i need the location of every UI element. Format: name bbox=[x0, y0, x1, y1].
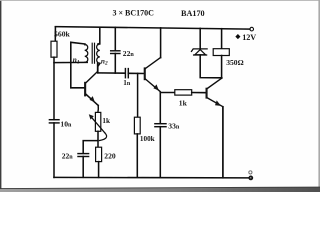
wire: to 1n bbox=[98, 72, 125, 74]
transformer T1 winding n2 bbox=[97, 44, 100, 63]
svg-text:n2: n2 bbox=[101, 56, 108, 66]
wire: 560k down to 10n bbox=[53, 57, 55, 119]
wire: 33n to ground rail bbox=[159, 127, 161, 178]
Q1 emitter bbox=[86, 94, 98, 105]
wire: 22n to rail bbox=[82, 157, 84, 178]
terminal lower bbox=[249, 176, 253, 180]
Q2 emitter bbox=[146, 79, 161, 91]
wire: node to 220 bbox=[97, 141, 99, 148]
scan edge bottom band bbox=[0, 187, 320, 192]
svg-text:BA170: BA170 bbox=[181, 9, 205, 18]
scan bottom line bbox=[0, 187, 320, 189]
wire: 350 to collector node bbox=[221, 56, 223, 78]
resistor 350 ohm bbox=[213, 49, 229, 56]
wire: 1n to Q2 base bbox=[128, 72, 144, 74]
transformer core bbox=[91, 43, 93, 63]
trimmer 1k (Q1 emitter) bbox=[95, 112, 100, 131]
wire: Q3 emitter to ground rail bbox=[222, 107, 224, 178]
terminal upper bbox=[249, 171, 252, 174]
svg-text:12V: 12V bbox=[242, 33, 256, 42]
polarity dot n1 bbox=[84, 43, 86, 45]
svg-text:220: 220 bbox=[104, 151, 116, 160]
wire: 220 to rail bbox=[98, 162, 100, 178]
svg-text:1k: 1k bbox=[179, 99, 188, 108]
svg-text:100k: 100k bbox=[140, 135, 155, 143]
wire: 100k to rail bbox=[136, 134, 138, 177]
wire: 1k to Q3 base bbox=[192, 92, 206, 94]
ground bottom rail bbox=[54, 176, 249, 179]
Q3 collector bbox=[207, 78, 222, 89]
Q3 emitter bbox=[207, 98, 222, 107]
transistor Q2 base bar bbox=[144, 67, 146, 80]
wire: +12V top rail bbox=[55, 27, 250, 30]
svg-text:3 × BC170C: 3 × BC170C bbox=[113, 9, 155, 18]
transistor Q3 base bar bbox=[206, 88, 208, 99]
diode BA170 bbox=[192, 49, 208, 55]
wire: rail to n2 top bbox=[99, 27, 101, 44]
resistor 100k bbox=[134, 117, 140, 134]
transformer T1 winding n1 bbox=[85, 44, 88, 62]
svg-text:33n: 33n bbox=[168, 121, 180, 130]
wire: n2 bottom down bbox=[98, 63, 100, 73]
svg-text:10n: 10n bbox=[60, 119, 72, 128]
wire: bias node horizontal to n1 bottom bbox=[54, 61, 87, 63]
Q1 collector bbox=[86, 72, 98, 83]
wire: 10n to rail corner bbox=[53, 123, 55, 177]
resistor R1 560k bbox=[51, 41, 57, 57]
wire: rail to 22n bbox=[114, 27, 116, 50]
capacitor 22n (emitter) bbox=[78, 153, 89, 155]
wire: n1 top to Q1 base bbox=[71, 42, 85, 88]
capacitor 10n bbox=[49, 119, 59, 121]
scan edge top bbox=[0, 0, 320, 2]
wire: base node down to 100k bbox=[137, 73, 139, 117]
svg-text:22n: 22n bbox=[123, 49, 135, 58]
capacitor 1n bbox=[124, 69, 126, 78]
svg-text:1n: 1n bbox=[123, 79, 131, 87]
svg-text:350Ω: 350Ω bbox=[226, 58, 243, 67]
wire: emitter node down to 33n bbox=[159, 92, 161, 123]
transistor Q1 base bar bbox=[84, 82, 86, 97]
wire: trimmer bottom node bbox=[83, 131, 98, 153]
resistor 220 bbox=[96, 147, 102, 161]
capacitor 22n (tank) bbox=[111, 50, 120, 52]
scan edge left bbox=[0, 0, 1, 192]
resistor 1k (Q3 base) bbox=[175, 90, 192, 95]
wire: rail to diode bbox=[199, 28, 201, 48]
svg-text:560k: 560k bbox=[54, 30, 71, 39]
svg-text:n1: n1 bbox=[73, 55, 80, 65]
terminal: +12V bbox=[250, 27, 254, 31]
scan edge right bbox=[318, 0, 320, 192]
polarity dot n2 bbox=[97, 43, 99, 45]
wire: rail to 560k bbox=[54, 27, 56, 42]
capacitor 33n bbox=[155, 123, 166, 125]
Q2 collector bbox=[146, 58, 161, 69]
wire: Q2 emitter node right to 1k bbox=[160, 92, 175, 94]
wire: 22n bottom bbox=[114, 54, 116, 74]
label +12V bbox=[235, 33, 256, 42]
wire: rail to 350 bbox=[221, 29, 223, 49]
svg-text:22n: 22n bbox=[62, 151, 74, 160]
wire: diode to collector node bbox=[200, 55, 222, 78]
svg-text:1k: 1k bbox=[102, 117, 110, 125]
